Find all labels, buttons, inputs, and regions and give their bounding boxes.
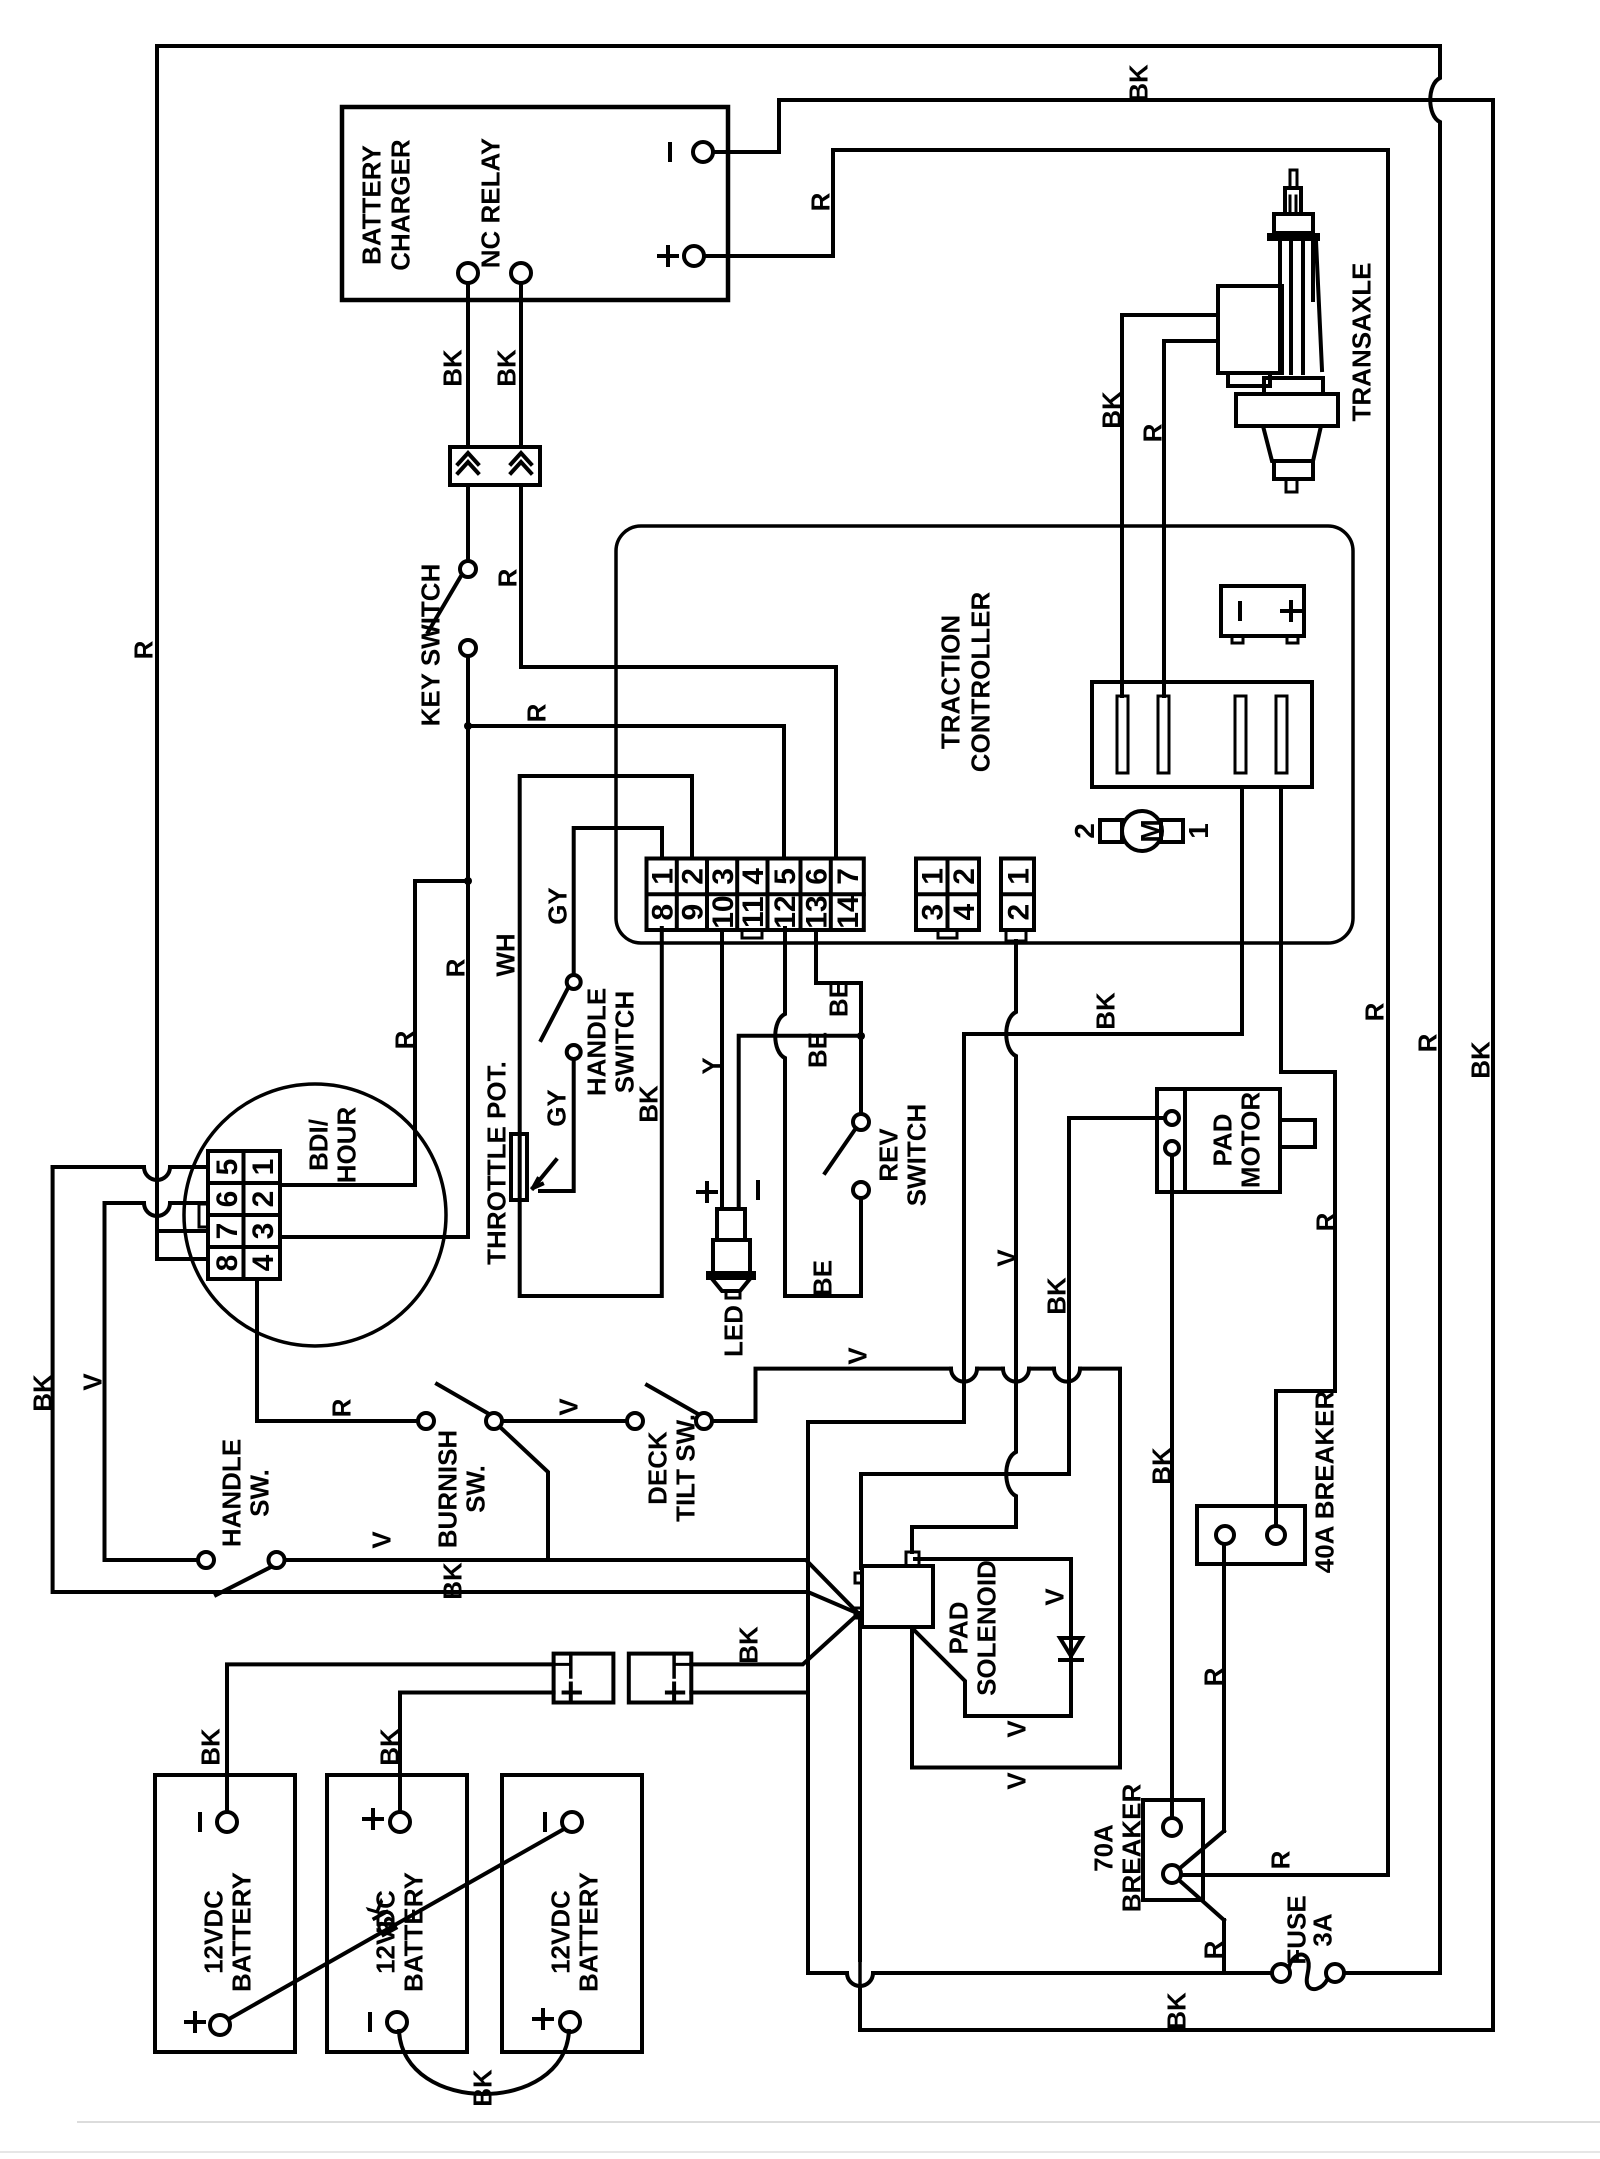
svg-text:12: 12 bbox=[769, 895, 802, 928]
svg-text:12VDC: 12VDC bbox=[198, 1890, 228, 1974]
svg-text:V: V bbox=[1001, 1772, 1031, 1790]
svg-text:4: 4 bbox=[737, 868, 770, 885]
svg-text:BREAKER: BREAKER bbox=[1116, 1784, 1146, 1913]
svg-text:2: 2 bbox=[677, 868, 710, 885]
svg-text:SOLENOID: SOLENOID bbox=[971, 1560, 1001, 1696]
svg-text:R: R bbox=[1310, 1212, 1340, 1231]
svg-text:70A: 70A bbox=[1088, 1824, 1118, 1872]
svg-text:HANDLE: HANDLE bbox=[216, 1439, 246, 1547]
svg-text:BATTERY: BATTERY bbox=[573, 1872, 603, 1992]
svg-text:BE: BE bbox=[802, 1032, 832, 1068]
svg-text:40A BREAKER: 40A BREAKER bbox=[1309, 1391, 1339, 1574]
svg-text:R: R bbox=[1412, 1033, 1442, 1052]
svg-text:1: 1 bbox=[247, 1159, 280, 1176]
svg-text:BK: BK bbox=[195, 1728, 225, 1766]
svg-text:3: 3 bbox=[247, 1223, 280, 1240]
svg-text:BATTERY: BATTERY bbox=[398, 1872, 428, 1992]
svg-text:BE: BE bbox=[823, 981, 853, 1017]
svg-text:BK: BK bbox=[733, 1626, 763, 1664]
svg-text:BDI/: BDI/ bbox=[303, 1119, 333, 1171]
svg-text:1: 1 bbox=[917, 868, 950, 885]
svg-text:CHARGER: CHARGER bbox=[385, 139, 415, 271]
svg-text:9: 9 bbox=[677, 904, 710, 921]
svg-text:R: R bbox=[492, 568, 522, 587]
svg-text:8: 8 bbox=[646, 904, 679, 921]
svg-text:BATTERY: BATTERY bbox=[226, 1872, 256, 1992]
svg-text:10: 10 bbox=[707, 895, 740, 928]
svg-text:3: 3 bbox=[917, 904, 950, 921]
svg-text:V: V bbox=[553, 1398, 583, 1416]
svg-text:7: 7 bbox=[211, 1223, 244, 1240]
svg-text:R: R bbox=[389, 1030, 419, 1049]
svg-text:V: V bbox=[1001, 1720, 1031, 1738]
svg-text:BK: BK bbox=[467, 2069, 497, 2107]
svg-text:13: 13 bbox=[801, 895, 834, 928]
svg-text:TILT SW.: TILT SW. bbox=[670, 1414, 700, 1522]
svg-text:BK: BK bbox=[437, 349, 467, 387]
svg-text:2: 2 bbox=[247, 1191, 280, 1208]
svg-text:GY: GY bbox=[542, 887, 572, 925]
svg-text:5: 5 bbox=[769, 868, 802, 885]
svg-text:HANDLE: HANDLE bbox=[581, 988, 611, 1096]
svg-text:11: 11 bbox=[737, 896, 770, 928]
svg-text:3A: 3A bbox=[1307, 1913, 1337, 1946]
svg-text:BK: BK bbox=[1123, 64, 1153, 102]
svg-text:R: R bbox=[521, 703, 551, 722]
svg-text:V: V bbox=[842, 1347, 872, 1365]
svg-text:BE: BE bbox=[807, 1260, 837, 1296]
svg-text:BK: BK bbox=[1090, 992, 1120, 1030]
svg-text:R: R bbox=[128, 640, 158, 659]
svg-text:1: 1 bbox=[1183, 823, 1214, 839]
svg-text:R: R bbox=[1265, 1850, 1295, 1869]
svg-text:6: 6 bbox=[801, 868, 834, 885]
svg-text:2: 2 bbox=[1002, 904, 1035, 921]
svg-text:BK: BK bbox=[27, 1374, 57, 1412]
svg-text:BK: BK bbox=[491, 349, 521, 387]
svg-text:MOTOR: MOTOR bbox=[1235, 1092, 1265, 1189]
svg-text:R: R bbox=[326, 1398, 356, 1417]
svg-text:KEY SWITCH: KEY SWITCH bbox=[415, 564, 445, 727]
svg-text:Y: Y bbox=[696, 1057, 726, 1074]
svg-text:REV: REV bbox=[873, 1128, 903, 1182]
svg-text:2: 2 bbox=[948, 868, 981, 885]
svg-text:V: V bbox=[1039, 1588, 1069, 1606]
svg-text:PAD: PAD bbox=[1207, 1114, 1237, 1167]
svg-text:WH: WH bbox=[490, 933, 520, 976]
svg-text:R: R bbox=[1359, 1002, 1389, 1021]
svg-text:4: 4 bbox=[948, 903, 981, 920]
svg-text:14: 14 bbox=[832, 895, 865, 929]
svg-text:12VDC: 12VDC bbox=[545, 1890, 575, 1974]
svg-text:5: 5 bbox=[211, 1159, 244, 1176]
svg-text:GY: GY bbox=[541, 1089, 571, 1127]
svg-text:R: R bbox=[440, 958, 470, 977]
svg-text:SW.: SW. bbox=[460, 1465, 490, 1513]
svg-text:SW.: SW. bbox=[244, 1469, 274, 1517]
svg-text:BK: BK bbox=[1465, 1041, 1495, 1079]
svg-text:V: V bbox=[991, 1249, 1021, 1267]
svg-text:HOUR: HOUR bbox=[331, 1107, 361, 1184]
svg-text:THROTTLE POT.: THROTTLE POT. bbox=[481, 1061, 511, 1265]
svg-text:BK: BK bbox=[1146, 1447, 1176, 1485]
svg-text:BURNISH: BURNISH bbox=[432, 1430, 462, 1548]
svg-text:1: 1 bbox=[646, 868, 679, 885]
svg-text:BK: BK bbox=[1096, 391, 1126, 429]
svg-text:V: V bbox=[366, 1531, 396, 1549]
svg-text:4: 4 bbox=[247, 1254, 280, 1271]
svg-text:3: 3 bbox=[707, 868, 740, 885]
svg-text:BK: BK bbox=[374, 1728, 404, 1766]
svg-text:TRANSAXLE: TRANSAXLE bbox=[1346, 263, 1376, 422]
svg-text:NC RELAY: NC RELAY bbox=[475, 138, 505, 269]
svg-text:7: 7 bbox=[832, 868, 865, 885]
svg-text:6: 6 bbox=[211, 1191, 244, 1208]
svg-text:BK: BK bbox=[1161, 1992, 1191, 2030]
svg-text:TRACTION: TRACTION bbox=[935, 615, 965, 749]
svg-text:PAD: PAD bbox=[943, 1602, 973, 1655]
svg-text:BATTERY: BATTERY bbox=[356, 145, 386, 265]
svg-text:BK: BK bbox=[1041, 1277, 1071, 1315]
svg-text:LED: LED bbox=[718, 1305, 748, 1357]
svg-text:SWITCH: SWITCH bbox=[901, 1104, 931, 1207]
svg-text:R: R bbox=[1198, 1667, 1228, 1686]
svg-text:V: V bbox=[77, 1373, 107, 1391]
svg-text:R: R bbox=[1137, 423, 1167, 442]
svg-text:DECK: DECK bbox=[642, 1431, 672, 1505]
svg-text:BK: BK bbox=[437, 1562, 467, 1600]
svg-text:1: 1 bbox=[1002, 868, 1035, 885]
svg-text:2: 2 bbox=[1069, 823, 1100, 839]
svg-text:CONTROLLER: CONTROLLER bbox=[965, 592, 995, 773]
svg-text:8: 8 bbox=[211, 1255, 244, 1272]
svg-text:R: R bbox=[805, 192, 835, 211]
svg-text:SWITCH: SWITCH bbox=[609, 991, 639, 1094]
